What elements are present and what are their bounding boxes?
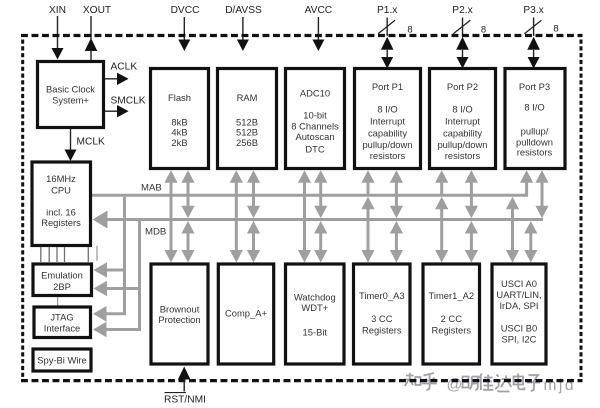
svg-text:SPI, I2C: SPI, I2C — [502, 334, 537, 345]
block Watchdog WDT+ — [286, 264, 345, 364]
block Flash memory — [151, 69, 209, 169]
svg-text:Registers: Registers — [362, 325, 402, 336]
svg-text:2 CC: 2 CC — [441, 313, 463, 324]
block Spy-Bi Wire — [33, 349, 91, 371]
wire P2.x lead — [462, 18, 464, 37]
svg-text:Autoscan: Autoscan — [295, 131, 334, 142]
arrow P1.x down into Port P1 — [381, 57, 393, 69]
wire XOUT lead — [90, 16, 92, 39]
block Comp_A+ — [218, 264, 273, 364]
svg-text:16MHz: 16MHz — [46, 173, 76, 184]
wire MDB-Brownout column lower — [187, 227, 190, 257]
wire Flash-MAB column (left, continuous) — [170, 176, 173, 257]
block Port P1 — [355, 69, 421, 169]
svg-text:8 I/O: 8 I/O — [452, 104, 472, 115]
svg-text:Protection: Protection — [158, 314, 200, 325]
svg-text:USCI A0: USCI A0 — [501, 278, 537, 289]
svg-text:Port P1: Port P1 — [372, 81, 403, 92]
svg-text:Spy-Bi Wire: Spy-Bi Wire — [37, 355, 86, 366]
svg-text:D/AVSS: D/AVSS — [225, 5, 262, 16]
svg-text:Watchdog: Watchdog — [294, 292, 336, 303]
svg-text:Registers: Registers — [431, 325, 471, 336]
svg-text:XIN: XIN — [49, 5, 66, 16]
svg-text:capability: capability — [443, 128, 482, 139]
glyph dian — [514, 374, 525, 390]
svg-text:Port P2: Port P2 — [447, 81, 478, 92]
wire MAB drop to Emulation/JTAG — [123, 197, 126, 314]
svg-text:pullup/: pullup/ — [521, 126, 549, 137]
arrow P3.x up — [527, 37, 540, 50]
arrow DVCC — [178, 40, 190, 52]
wire PortP2-MAB stub — [440, 176, 443, 194]
block Basic Clock System+ — [38, 62, 104, 128]
block Port P3 — [505, 69, 565, 169]
wire branch to Emulation bottom — [105, 287, 141, 290]
slash bus-width mark P1 — [378, 20, 395, 34]
wire RAM-MAB column (left, continuous) — [235, 176, 238, 257]
svg-text:Registers: Registers — [41, 217, 81, 228]
svg-text:resistors: resistors — [517, 147, 553, 158]
svg-text:Brownout: Brownout — [160, 304, 200, 315]
svg-text:Interrupt: Interrupt — [370, 116, 405, 127]
wire PortP1-MAB stub — [367, 176, 370, 194]
wire ticks CPU-Emulation parallel bus — [41, 247, 89, 262]
svg-text:P3.x: P3.x — [523, 5, 543, 16]
glyph da — [495, 375, 511, 392]
wire RAM-MDB column upper — [252, 176, 255, 210]
wire tick right of Emulation — [96, 246, 98, 261]
slash bus-width mark P3 — [524, 20, 541, 34]
svg-text:incl. 16: incl. 16 — [46, 207, 76, 218]
arrow P1.x up — [381, 37, 394, 50]
wire DVCC lead — [183, 17, 185, 40]
arrow into JTAG (from MDB) — [93, 322, 107, 338]
wire MAB-Timer0 column — [367, 203, 370, 257]
wire Emulation-JTAG connector — [57, 297, 59, 306]
arrow into JTAG (from MAB) — [93, 306, 107, 322]
glyph hu — [422, 373, 437, 390]
svg-text:10-bit: 10-bit — [303, 110, 327, 121]
svg-text:RAM: RAM — [237, 92, 258, 103]
wire MDB-Watchdog column lower — [319, 227, 322, 257]
svg-text:USCI B0: USCI B0 — [501, 323, 537, 334]
wire XOUT stem to box — [90, 50, 92, 60]
arrow D/AVSS — [237, 40, 249, 52]
svg-text:pullup/down: pullup/down — [362, 139, 412, 150]
arrow XIN into Basic Clock — [52, 48, 64, 60]
wire P2.x stem — [462, 50, 464, 58]
wire MDB-Timer1 column lower — [470, 227, 473, 257]
svg-text:DTC: DTC — [305, 144, 324, 155]
wire SMCLK — [105, 110, 118, 112]
wire MDB drop to Emulation/JTAG — [138, 221, 141, 330]
wire Flash-MDB column upper — [187, 176, 190, 210]
wire P3.x stem — [533, 50, 535, 58]
wire P1.x lead — [386, 18, 388, 37]
block CPU 16MHz — [32, 162, 91, 246]
svg-text:Timer1_A2: Timer1_A2 — [429, 290, 475, 301]
svg-text:8 Channels: 8 Channels — [291, 121, 339, 132]
glyph zi — [527, 375, 540, 391]
arrow into Emulation (from MDB) — [94, 281, 108, 297]
svg-text:Interrupt: Interrupt — [445, 116, 480, 127]
svg-text:UART/LIN,: UART/LIN, — [496, 289, 541, 300]
arrow MDB into CPU — [93, 211, 108, 229]
watermark 知乎 @明佳达电子mjd — [404, 373, 540, 394]
device boundary bottom dashed border — [21, 379, 583, 382]
svg-text:MCLK: MCLK — [77, 137, 106, 148]
glyph zhi — [404, 373, 421, 386]
svg-text:ADC10: ADC10 — [300, 88, 330, 99]
svg-text:8 I/O: 8 I/O — [377, 104, 397, 115]
wire PortP1-MDB column upper — [395, 176, 398, 210]
wire MAB-USCI column — [511, 203, 514, 257]
wire ADC10-MDB column upper — [319, 176, 322, 210]
block Brownout Protection — [151, 264, 208, 364]
wire MCLK — [70, 129, 72, 150]
wire MDB-USCI column — [529, 227, 532, 257]
svg-text:ACLK: ACLK — [111, 62, 138, 73]
block ADC10 — [286, 69, 345, 169]
block RAM — [218, 69, 277, 169]
wire MDB-Timer0 column lower — [395, 227, 398, 257]
svg-text:Comp_A+: Comp_A+ — [225, 308, 267, 319]
svg-text:P2.x: P2.x — [452, 5, 472, 16]
svg-text:2kB: 2kB — [171, 137, 187, 148]
wire P3.x lead — [533, 18, 535, 37]
svg-text:resistors: resistors — [370, 150, 406, 161]
arrow P3.x down into Port P3 — [528, 57, 540, 69]
wire RST/NMI stem — [183, 379, 185, 392]
svg-text:DVCC: DVCC — [171, 5, 200, 16]
svg-text:System+: System+ — [52, 95, 89, 106]
svg-text:15-Bit: 15-Bit — [303, 327, 328, 338]
block Timer1_A2 — [423, 264, 480, 364]
wire MAB-Timer1 column — [440, 203, 443, 257]
device boundary left dashed border — [21, 40, 24, 380]
svg-text:JTAG: JTAG — [50, 312, 73, 323]
arrow MAB up into Port P3 — [520, 170, 533, 183]
svg-text:pullup/down: pullup/down — [437, 139, 487, 150]
arrow AVCC — [312, 40, 324, 52]
device boundary right dashed border — [580, 40, 583, 380]
wire AVCC lead — [317, 17, 319, 40]
arrow SMCLK right — [117, 105, 129, 117]
wire ACLK — [105, 78, 118, 80]
svg-text:Interface: Interface — [44, 323, 80, 334]
svg-text:4kB: 4kB — [171, 127, 187, 138]
block Emulation 2BP — [33, 264, 92, 296]
slash bus-width mark P2 — [453, 20, 470, 34]
wire MDB-CompA column lower — [252, 227, 255, 257]
wire P1.x stem — [386, 50, 388, 58]
MDB bus line — [104, 218, 543, 221]
svg-text:Flash: Flash — [168, 92, 191, 103]
glyph jia — [479, 374, 493, 391]
wire branch to Emulation top — [105, 269, 126, 272]
svg-text:256B: 256B — [236, 137, 258, 148]
wire D/AVSS lead — [242, 17, 244, 40]
arrow P2.x up — [456, 37, 469, 50]
block USCI A0/B0 — [492, 264, 546, 364]
svg-text:SMCLK: SMCLK — [111, 96, 146, 107]
svg-text:8: 8 — [481, 25, 486, 36]
svg-text:capability: capability — [368, 128, 407, 139]
wire PortP2-MDB column upper — [470, 176, 473, 210]
svg-text:AVCC: AVCC — [305, 5, 333, 16]
svg-text:Basic Clock: Basic Clock — [46, 84, 95, 95]
svg-text:2BP: 2BP — [53, 281, 71, 292]
svg-text:MDB: MDB — [145, 227, 166, 238]
svg-text:MAB: MAB — [141, 183, 162, 194]
arrow MCLK into CPU — [65, 150, 77, 162]
svg-text:P1.x: P1.x — [377, 5, 397, 16]
glyph ming — [463, 377, 478, 390]
svg-text:8: 8 — [553, 24, 558, 35]
svg-text:8: 8 — [407, 25, 412, 36]
svg-text:XOUT: XOUT — [83, 5, 111, 16]
svg-text:512B: 512B — [236, 127, 258, 138]
svg-text:Emulation: Emulation — [41, 270, 83, 281]
svg-text:3 CC: 3 CC — [371, 313, 393, 324]
svg-text:IrDA, SPI: IrDA, SPI — [499, 300, 538, 311]
block JTAG Interface — [34, 307, 91, 338]
arrow P2.x down into Port P2 — [457, 57, 469, 69]
device boundary dashed border — [21, 34, 583, 37]
wire branch to JTAG bottom — [104, 328, 141, 331]
block Port P2 — [430, 69, 496, 169]
svg-text:8 I/O: 8 I/O — [524, 102, 544, 113]
svg-text:CPU: CPU — [51, 185, 71, 196]
arrow RST/NMI into Brownout — [178, 367, 191, 380]
arrow ACLK right — [117, 73, 129, 85]
svg-text:RST/NMI: RST/NMI — [164, 394, 206, 405]
svg-text:resistors: resistors — [445, 150, 481, 161]
wire PortP3-MDB column — [541, 176, 544, 210]
svg-text:Timer0_A3: Timer0_A3 — [359, 290, 405, 301]
wire ADC10-MAB column (left, continuous) — [303, 176, 306, 257]
wire branch to JTAG top — [104, 312, 126, 315]
svg-text:WDT+: WDT+ — [301, 302, 328, 313]
svg-text:Port P3: Port P3 — [519, 81, 550, 92]
arrow into Emulation (from MAB) — [94, 262, 108, 278]
arrow XOUT outward — [85, 38, 98, 51]
wire XIN lead — [57, 16, 59, 49]
block Timer0_A3 — [354, 264, 411, 364]
MAB bus line with corner up into Port P3 — [92, 181, 527, 195]
